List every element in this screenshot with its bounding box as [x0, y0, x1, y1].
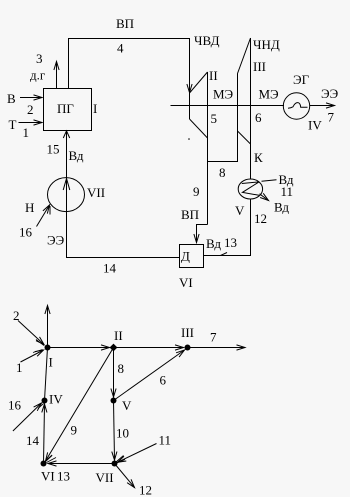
svg-text:V: V	[122, 398, 132, 413]
svg-text:I: I	[49, 355, 53, 370]
svg-text:8: 8	[219, 165, 226, 180]
svg-text:IV: IV	[49, 392, 63, 407]
svg-text:1: 1	[16, 360, 23, 375]
svg-text:12: 12	[139, 483, 152, 497]
svg-text:III: III	[253, 59, 266, 74]
svg-text:В: В	[7, 91, 16, 106]
svg-text:9: 9	[71, 423, 78, 438]
svg-text:Н: Н	[25, 200, 34, 215]
svg-text:II: II	[209, 68, 218, 83]
svg-text:2: 2	[13, 308, 20, 323]
svg-text:2: 2	[27, 102, 34, 117]
svg-text:II: II	[114, 328, 123, 343]
svg-text:7: 7	[328, 110, 335, 125]
svg-text:4: 4	[117, 41, 124, 56]
svg-text:ЭГ: ЭГ	[293, 72, 310, 87]
svg-text:7: 7	[210, 330, 217, 345]
svg-text:ЧВД: ЧВД	[194, 33, 220, 48]
svg-text:ЭЭ: ЭЭ	[321, 86, 339, 101]
svg-text:ВП: ВП	[181, 207, 199, 222]
svg-text:3: 3	[36, 51, 43, 66]
svg-text:14: 14	[103, 261, 117, 276]
svg-text:III: III	[181, 325, 194, 340]
svg-text:VII: VII	[96, 470, 114, 485]
svg-text:ВП: ВП	[116, 16, 134, 31]
svg-text:ЧНД: ЧНД	[253, 37, 280, 52]
svg-text:11: 11	[281, 184, 294, 199]
svg-text:V: V	[235, 203, 245, 218]
svg-text:13: 13	[57, 469, 70, 484]
svg-text:ПГ: ПГ	[57, 101, 74, 116]
svg-text:МЭ: МЭ	[259, 87, 280, 102]
svg-text:6: 6	[255, 110, 262, 125]
svg-text:I: I	[93, 101, 97, 116]
svg-text:д.г: д.г	[30, 68, 45, 83]
svg-text:14: 14	[26, 433, 40, 448]
svg-text:МЭ: МЭ	[213, 87, 234, 102]
svg-text:Вд: Вд	[206, 236, 221, 251]
svg-text:15: 15	[47, 142, 60, 157]
svg-text:VI: VI	[41, 469, 55, 484]
svg-text:8: 8	[118, 361, 125, 376]
svg-text:9: 9	[193, 184, 200, 199]
svg-text:Вд: Вд	[274, 200, 289, 215]
svg-text:Т: Т	[9, 117, 17, 132]
svg-text:13: 13	[224, 235, 237, 250]
svg-text:16: 16	[8, 398, 22, 413]
svg-text:1: 1	[23, 125, 30, 140]
svg-text:К: К	[254, 150, 263, 165]
svg-text:6: 6	[160, 373, 167, 388]
svg-text:10: 10	[116, 426, 129, 441]
svg-text:12: 12	[254, 211, 267, 226]
svg-text:5: 5	[211, 111, 218, 126]
svg-text:IV: IV	[308, 118, 322, 133]
svg-text:ЭЭ: ЭЭ	[47, 233, 65, 248]
svg-text:Д: Д	[181, 249, 190, 264]
svg-text:11: 11	[159, 433, 172, 448]
svg-text:VI: VI	[179, 275, 193, 290]
svg-text:Вд: Вд	[69, 148, 84, 163]
svg-text:16: 16	[19, 225, 33, 240]
svg-text:VII: VII	[87, 185, 105, 200]
